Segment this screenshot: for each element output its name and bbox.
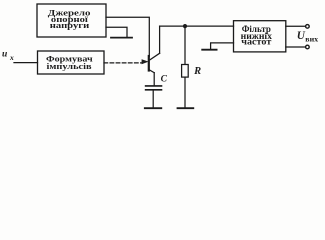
block U3 "Фільтр нижніх частот" (low-pass filter) [234,21,286,52]
label "Джерело опорної напруги" [48,8,91,30]
ground under C [145,107,162,109]
wire filter to its ground [211,43,234,49]
output wire top [286,25,306,27]
wire capacitor to ground [152,91,154,108]
wire rail down to resistor R [184,26,186,64]
dashed control wire U2 to transistor base [104,62,142,64]
capacitor C top plate [146,85,162,87]
ground near U1 [111,37,132,39]
transistor emitter lead diagonal [149,70,154,73]
wire collector to top rail [159,26,161,53]
svg-text:C: C [161,74,168,84]
top rail wire to filter [160,25,234,27]
label "Формувач імпульсів" [46,54,93,71]
block U1 "Джерело опорної напруги" (reference voltage source) [37,4,106,37]
transistor VT base bar [148,56,150,71]
ground of filter [202,49,216,51]
transistor collector lead diagonal [150,53,160,60]
output wire bottom [286,46,306,48]
wire R to ground [184,77,186,108]
wire input u_x to U2 [14,62,38,64]
junction node dot [183,24,187,28]
output terminal bottom [306,45,310,49]
svg-text:R: R [193,66,201,77]
svg-text:імпульсів: імпульсів [47,61,92,71]
output terminal top [306,25,310,29]
svg-text:u: u [2,50,7,60]
svg-text:частот: частот [241,37,272,47]
arrowhead of control wire [142,59,149,64]
label u_x input [2,50,14,63]
wire U1 top output to transistor [106,17,149,56]
wire U1 lower output to ground [106,27,127,37]
resistor R body [182,65,189,78]
wire emitter to capacitor [153,73,155,86]
svg-text:напруги: напруги [50,20,89,30]
label "Фільтр нижніх частот" [241,24,273,46]
svg-text:x: x [9,53,14,62]
label U_вих [297,30,319,43]
svg-text:вих: вих [305,34,318,43]
block U2 "Формувач імпульсів" (pulse shaper) [38,51,105,74]
capacitor C bottom plate [146,89,162,91]
ground under R [178,107,194,109]
